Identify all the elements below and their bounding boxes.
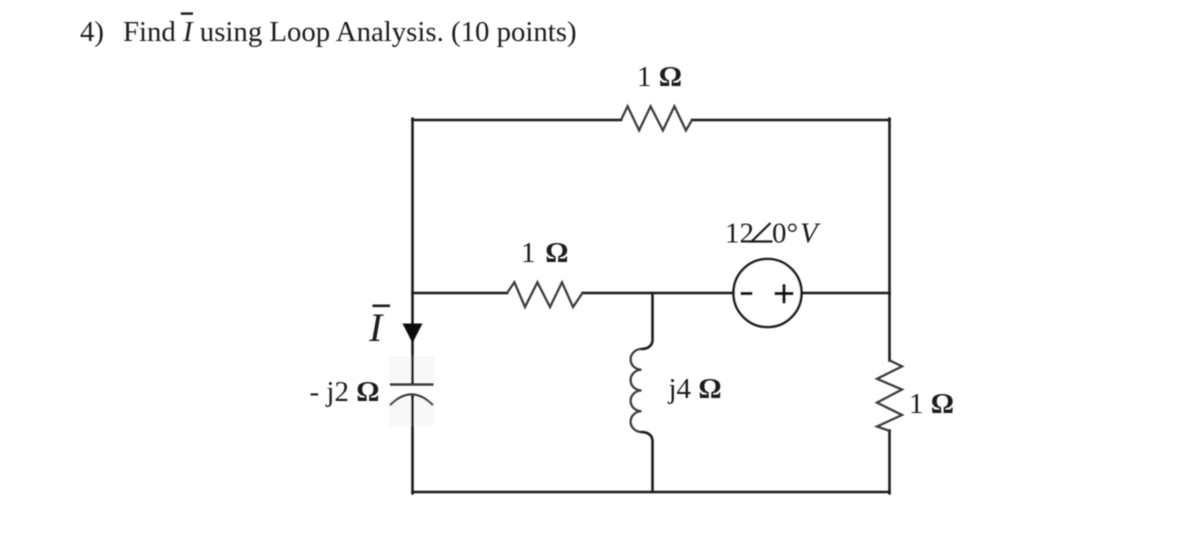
svg-text:Find I using Loop Analysis. (1: Find I using Loop Analysis. (10 points): [123, 16, 577, 48]
svg-text:1 Ω: 1 Ω: [521, 237, 568, 269]
svg-text:I: I: [368, 305, 384, 350]
svg-text:4): 4): [80, 16, 104, 48]
svg-text:- j2 Ω: - j2 Ω: [310, 376, 380, 408]
svg-text:0°: 0°: [772, 218, 798, 250]
svg-text:1 Ω: 1 Ω: [637, 61, 682, 93]
svg-text:1 Ω: 1 Ω: [909, 388, 954, 420]
svg-text:j4 Ω: j4 Ω: [668, 373, 722, 405]
svg-text:12: 12: [725, 218, 754, 250]
